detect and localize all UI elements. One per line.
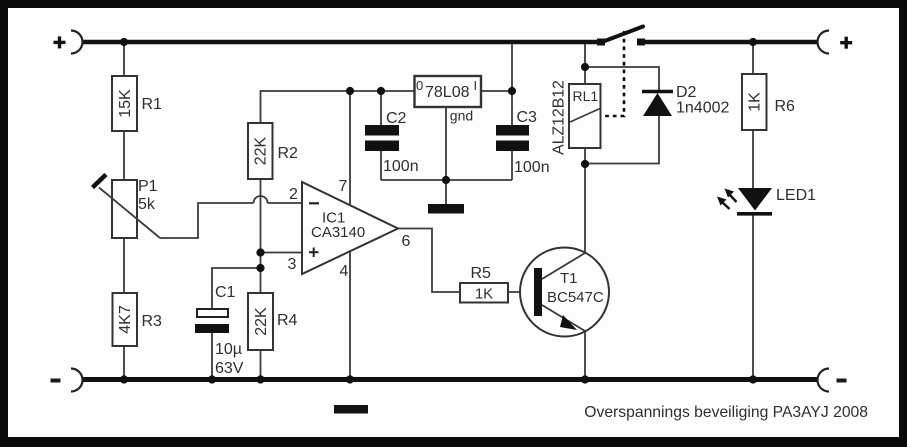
svg-text:100n: 100n <box>383 158 419 175</box>
terminal minus bottom-right <box>818 369 847 392</box>
wire LED1 to rail <box>752 215 754 379</box>
wire D2 bottom loop <box>585 116 659 164</box>
wire hop over R2 line <box>254 196 268 203</box>
svg-text:2: 2 <box>289 186 298 203</box>
wire node to D2 top <box>585 67 659 90</box>
wire bottom rail <box>83 377 817 382</box>
wire relay bottom <box>584 148 586 164</box>
svg-text:D2: D2 <box>676 84 697 101</box>
wire hop to pin 2 <box>268 202 303 204</box>
wire C1 bottom <box>211 333 213 379</box>
node bottom rail LED <box>749 375 757 383</box>
wire pin7 pin4 vertical <box>349 91 351 378</box>
node bottom rail T1 <box>581 375 589 383</box>
svg-text:3: 3 <box>288 256 297 273</box>
diode D2 <box>642 84 729 117</box>
node relay D2 top <box>581 63 589 71</box>
wire R2 bottom to R4 top <box>260 179 262 293</box>
svg-text:R6: R6 <box>775 98 796 115</box>
svg-text:78L08: 78L08 <box>425 84 470 101</box>
resistor R4 <box>248 293 298 350</box>
svg-text:C3: C3 <box>517 109 538 126</box>
svg-text:gnd: gnd <box>450 108 473 124</box>
svg-text:15K: 15K <box>117 89 134 118</box>
relay RL1 <box>550 80 600 155</box>
svg-text:LED1: LED1 <box>776 187 816 204</box>
svg-text:5k: 5k <box>138 196 156 213</box>
wire C2 top <box>380 91 382 125</box>
svg-text:C1: C1 <box>215 284 236 301</box>
node pin 3 <box>256 248 264 256</box>
svg-text:RL1: RL1 <box>573 88 599 104</box>
svg-text:1K: 1K <box>747 92 764 112</box>
node bottom rail R4 <box>256 375 264 383</box>
svg-text:R2: R2 <box>278 145 299 162</box>
svg-text:R5: R5 <box>471 265 492 282</box>
svg-text:R3: R3 <box>142 313 163 330</box>
wire C3 node to top rail <box>511 44 513 91</box>
node C2 branch <box>377 87 385 95</box>
svg-text:T1: T1 <box>560 270 578 287</box>
wire R6 to LED1 <box>752 130 754 188</box>
wire R1 top <box>123 42 125 76</box>
svg-text:1K: 1K <box>475 286 493 303</box>
svg-text:0: 0 <box>416 78 423 93</box>
resistor R6 <box>742 74 795 130</box>
resistor R5 <box>460 265 508 303</box>
capacitor C1 <box>195 284 244 377</box>
node top rail R1 <box>120 38 128 46</box>
svg-text:R4: R4 <box>277 312 298 329</box>
svg-text:CA3140: CA3140 <box>311 224 365 241</box>
node pin7 branch <box>346 87 354 95</box>
wire T1 emitter to rail <box>584 331 586 379</box>
dashed link switch to relay <box>602 31 624 116</box>
wire op-amp output <box>398 229 460 293</box>
relay switch contact <box>597 27 645 46</box>
wire 78L08 gnd down <box>445 106 447 204</box>
wire P1 to R3 <box>123 238 125 293</box>
svg-text:6: 6 <box>402 233 411 250</box>
wire R6 top <box>752 44 754 74</box>
LED1 <box>717 187 816 214</box>
node top rail R6 <box>749 38 757 46</box>
wire R3 to rail <box>123 346 125 379</box>
svg-text:I: I <box>474 78 478 93</box>
terminal plus top-left <box>54 31 83 54</box>
svg-text:ALZ12B12: ALZ12B12 <box>550 80 567 155</box>
wire top rail left segment <box>83 40 601 45</box>
wire C3 top <box>511 91 513 125</box>
node 78L08 out <box>508 87 516 95</box>
wire to C1 <box>212 268 261 309</box>
svg-text:P1: P1 <box>138 178 158 195</box>
svg-text:22K: 22K <box>253 136 270 165</box>
wire R2 top <box>261 91 416 123</box>
node gnd bus <box>442 176 450 184</box>
ground bar regulator <box>428 204 464 214</box>
wire relay to collector <box>584 164 586 253</box>
node bottom rail pin4 <box>346 375 354 383</box>
svg-text:7: 7 <box>339 178 348 195</box>
svg-text:22K: 22K <box>253 307 270 336</box>
wire gnd bus <box>381 179 512 181</box>
wire relay top <box>584 44 586 84</box>
svg-text:4: 4 <box>340 263 349 280</box>
resistor R1 <box>112 76 162 131</box>
node C1 branch <box>256 264 264 272</box>
node relay D2 bottom <box>581 160 589 168</box>
wire R1 to P1 <box>123 131 125 180</box>
terminal plus top-right <box>818 31 853 54</box>
resistor R2 <box>248 123 298 179</box>
regulator 78L08 <box>415 76 482 124</box>
wire top rail right segment <box>641 40 817 45</box>
terminal minus bottom-left <box>51 369 83 392</box>
resistor R3 <box>113 293 163 346</box>
svg-text:4K7: 4K7 <box>117 305 134 334</box>
wire pin 3 <box>261 252 303 254</box>
op-amp IC1 <box>288 178 411 280</box>
node bottom rail R3 <box>120 375 128 383</box>
svg-text:10µ: 10µ <box>215 341 242 358</box>
svg-text:63V: 63V <box>215 360 244 377</box>
potentiometer P1 <box>93 175 161 239</box>
wire 78L08 out to C3 node <box>479 90 512 92</box>
svg-text:BC547C: BC547C <box>547 289 604 306</box>
node bottom rail C1 <box>208 375 216 383</box>
capacitor C3 <box>496 109 550 176</box>
wire C2 bottom <box>380 151 382 180</box>
wire R4 bottom <box>260 350 262 379</box>
ground bar main <box>334 405 368 414</box>
svg-text:100n: 100n <box>514 159 550 176</box>
transistor T1 <box>520 248 609 337</box>
svg-text:R1: R1 <box>142 96 163 113</box>
wire C3 bottom <box>511 151 513 180</box>
wire P1 wiper to pin 2 <box>160 203 254 238</box>
svg-text:C2: C2 <box>386 110 407 127</box>
svg-text:1n4002: 1n4002 <box>676 100 729 117</box>
capacitor C2 <box>365 110 419 175</box>
svg-text:Overspannings beveiliging PA3A: Overspannings beveiliging PA3AYJ 2008 <box>584 404 868 421</box>
wire R5 to T1 base <box>508 291 534 293</box>
